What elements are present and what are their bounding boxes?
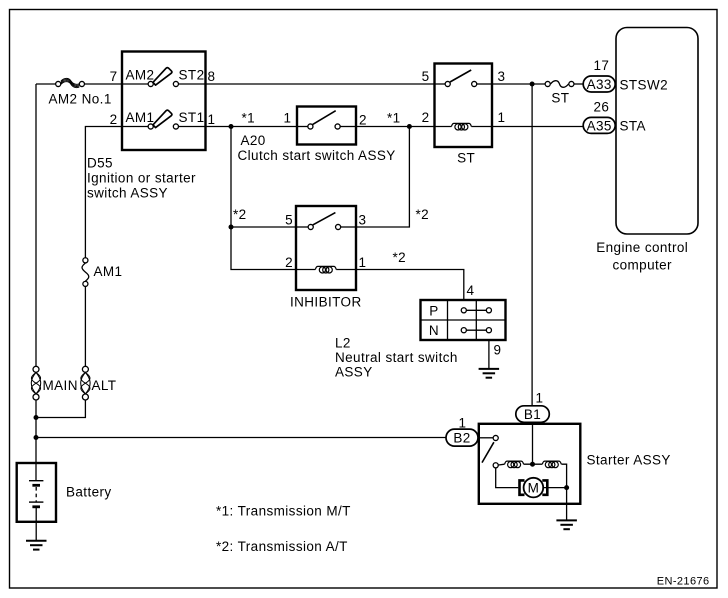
wire: motor to ground junction <box>543 487 566 489</box>
ground (battery) <box>26 541 47 550</box>
svg-text:17: 17 <box>594 58 610 73</box>
svg-text:1: 1 <box>359 255 367 270</box>
node: junction on ST1 line (M/T branch) <box>229 124 234 129</box>
svg-text:Ignition or starter: Ignition or starter <box>87 171 196 186</box>
label Engine control computer <box>596 240 688 273</box>
svg-text:*1: *1 <box>387 111 401 126</box>
starter pull-in coil <box>542 461 561 468</box>
svg-text:A20: A20 <box>241 133 266 148</box>
svg-text:AM2: AM2 <box>126 68 155 83</box>
svg-text:2: 2 <box>359 113 367 128</box>
starter switch lever <box>482 442 494 462</box>
connector A35 <box>583 117 615 133</box>
neutral start switch L2 box <box>421 300 506 340</box>
node: MAIN/ALT junction <box>34 415 39 420</box>
wire: stubs inside D55 AM2 row <box>122 83 148 85</box>
svg-text:*2: Transmission A/T: *2: Transmission A/T <box>216 539 348 554</box>
label L2 Neutral start switch ASSY <box>335 336 458 380</box>
wire: pull-in coil to motor right junction <box>561 464 566 487</box>
svg-text:AM2 No.1: AM2 No.1 <box>49 92 112 107</box>
svg-text:8: 8 <box>208 69 216 84</box>
svg-text:Engine control: Engine control <box>596 240 688 255</box>
label A20 Clutch start switch ASSY <box>238 133 396 163</box>
wire: M/T branch down to inhibitor pin 5 <box>231 127 296 270</box>
svg-text:A35: A35 <box>587 118 612 133</box>
fuse ALT (fusible link, triple-wave vertical) <box>81 366 90 400</box>
wire: A/T branch down to inhibitor pin 3 <box>356 127 409 228</box>
svg-text:INHIBITOR: INHIBITOR <box>290 295 362 310</box>
svg-text:A33: A33 <box>587 77 612 92</box>
wire: coil leads <box>499 463 505 466</box>
svg-text:computer: computer <box>612 258 672 273</box>
svg-text:*2: *2 <box>416 207 430 222</box>
inhibitor contact left <box>308 224 313 229</box>
svg-text:7: 7 <box>110 69 118 84</box>
node: battery feed junction <box>34 435 39 440</box>
wire: inhibitor pin 1 to neutral start switch pin 4 <box>356 270 464 301</box>
inhibitor switch box <box>296 206 356 290</box>
wire: AM1 fuse to fuse ALT <box>84 287 86 367</box>
svg-text:2: 2 <box>110 112 118 127</box>
svg-text:ST1: ST1 <box>179 110 205 125</box>
L2 row divider <box>421 319 506 321</box>
L2 P row contacts <box>461 308 491 313</box>
svg-text:Neutral start switch: Neutral start switch <box>335 350 458 365</box>
connector B2 <box>446 429 478 446</box>
L2 column dividers <box>447 300 449 340</box>
wire: ST2 pin 8 to relay ST pin 5 <box>206 83 435 85</box>
starter solenoid contact <box>493 435 498 440</box>
svg-text:Clutch start switch ASSY: Clutch start switch ASSY <box>238 148 396 163</box>
wire: inhibitor pin 5 feed <box>231 226 296 228</box>
inhibitor contact right <box>336 224 341 229</box>
svg-text:4: 4 <box>467 283 475 298</box>
svg-text:3: 3 <box>498 69 506 84</box>
inhibitor switch lever <box>313 213 336 225</box>
node: junction on inhibitor 5 line <box>229 225 234 230</box>
wire: B1 feed vertical <box>531 84 533 406</box>
svg-text:1: 1 <box>498 110 506 125</box>
svg-text:1: 1 <box>459 416 467 431</box>
wire: relay coil leads inside box <box>435 126 452 128</box>
ground (L2) <box>479 369 500 378</box>
svg-text:1: 1 <box>208 112 216 127</box>
engine control computer box <box>616 28 698 235</box>
D55 AM1-ST1 lever <box>153 110 172 127</box>
wire: junction down to ground <box>566 488 568 521</box>
svg-text:N: N <box>429 323 439 338</box>
svg-text:*2: *2 <box>393 250 407 265</box>
svg-text:M: M <box>528 481 540 496</box>
wire: inhibitor coil leads <box>296 269 315 271</box>
svg-text:Battery: Battery <box>66 485 112 500</box>
wire: D55 pin 2 to left, down main vertical branch <box>85 127 122 258</box>
wire: L2 pin 9 to ground <box>488 340 490 369</box>
connector B1 <box>516 406 550 423</box>
relay ST coil <box>451 123 471 130</box>
D55 AM2-ST2 lever <box>153 68 172 85</box>
D55 contact ST1 <box>173 124 178 129</box>
wire: main vertical to battery <box>35 400 37 481</box>
A20 contact left <box>308 124 313 129</box>
svg-text:1: 1 <box>284 111 292 126</box>
wire: ALT branch joining main vertical <box>36 400 85 418</box>
wire: B1 into starter to coil junction <box>532 423 534 465</box>
svg-text:EN-21676: EN-21676 <box>657 576 710 588</box>
wire: stubs inside inhibitor switch row <box>296 226 308 228</box>
svg-text:2: 2 <box>285 255 293 270</box>
svg-text:L2: L2 <box>335 336 351 351</box>
wire: stubs inside D55 AM1 row <box>122 126 148 128</box>
ignition switch D55 box <box>122 52 206 151</box>
fuse AM2 No.1 (fusible link, triple-wave) <box>56 78 85 87</box>
relay ST contact right <box>472 81 477 86</box>
svg-text:B1: B1 <box>524 407 541 422</box>
ground (starter) <box>556 520 577 529</box>
svg-text:ST: ST <box>551 91 569 106</box>
fuse AM1 <box>82 258 89 287</box>
svg-text:5: 5 <box>422 69 430 84</box>
starter hold-in coil <box>505 461 524 468</box>
wire: battery to ground <box>35 522 37 541</box>
starter ASSY box <box>479 424 581 504</box>
wire: main vertical from AM2 line down to fuse MAIN <box>35 84 37 367</box>
wire: relay pin 3 to fuse ST <box>492 83 545 85</box>
svg-text:9: 9 <box>494 343 502 358</box>
svg-text:1: 1 <box>536 391 544 406</box>
relay ST switch lever <box>450 70 471 82</box>
wire: fuse AM2 No.1 to D55 pin 7 <box>85 83 122 85</box>
wire: ST1 pin 1 to clutch switch pin 1 <box>206 126 298 128</box>
svg-text:AM1: AM1 <box>126 110 155 125</box>
node: junction A20 output (A/T branch) <box>407 124 412 129</box>
battery cell symbol <box>29 481 43 522</box>
starter motor M <box>520 478 548 498</box>
svg-text:3: 3 <box>359 213 367 228</box>
wire: B2 to solenoid contact <box>478 437 493 439</box>
wire: stubs inside relay switch row <box>435 83 446 85</box>
svg-text:Starter ASSY: Starter ASSY <box>587 453 671 468</box>
svg-text:STSW2: STSW2 <box>620 78 669 93</box>
svg-text:ST2: ST2 <box>179 68 205 83</box>
inhibitor coil <box>315 266 336 273</box>
svg-text:ASSY: ASSY <box>335 365 373 380</box>
starter coil contact <box>493 463 498 468</box>
svg-text:MAIN: MAIN <box>43 378 78 393</box>
svg-text:2: 2 <box>422 110 430 125</box>
wire: A20 pin 2 to relay ST pin 2 <box>356 126 435 128</box>
label D55 Ignition or starter switch ASSY <box>87 156 196 201</box>
relay ST box <box>435 64 493 148</box>
wire: AM2 feed from main vertical to fuse AM2 No.1 <box>36 83 55 85</box>
svg-text:B2: B2 <box>453 431 470 446</box>
node: junction to starter B1 feed <box>530 82 535 87</box>
svg-text:ALT: ALT <box>92 378 117 393</box>
svg-text:5: 5 <box>285 213 293 228</box>
wire: relay pin 1 to connector A35 <box>492 126 583 128</box>
svg-text:*1: *1 <box>242 111 256 126</box>
wire: stubs inside A20 <box>297 126 308 128</box>
wire: fuse ST to connector A33 <box>574 83 583 85</box>
A20 contact right <box>335 124 340 129</box>
svg-text:AM1: AM1 <box>94 264 123 279</box>
svg-text:switch ASSY: switch ASSY <box>87 186 168 201</box>
A20 switch lever <box>313 111 336 125</box>
D55 contact AM1 <box>148 124 153 129</box>
D55 contact ST2 <box>173 81 178 86</box>
svg-text:26: 26 <box>594 99 610 114</box>
node: coil junction under B1 <box>530 462 535 467</box>
fuse MAIN (fusible link, triple-wave vertical) <box>31 366 40 400</box>
svg-text:*1: Transmission M/T: *1: Transmission M/T <box>216 504 351 519</box>
D55 contact AM2 <box>148 81 153 86</box>
svg-text:*2: *2 <box>233 207 247 222</box>
clutch start switch A20 box <box>297 107 356 145</box>
L2 N row contacts <box>461 328 491 333</box>
connector A33 <box>583 76 615 92</box>
svg-text:D55: D55 <box>87 156 113 171</box>
svg-text:STA: STA <box>620 119 646 134</box>
wire: contact down to motor left lead <box>496 468 519 488</box>
wire: battery junction to starter B2 <box>36 437 446 439</box>
relay ST contact left <box>445 81 450 86</box>
node: motor/ground junction <box>564 485 569 490</box>
svg-text:P: P <box>429 303 438 318</box>
svg-text:ST: ST <box>457 151 475 166</box>
fuse ST <box>545 81 574 88</box>
battery box <box>17 463 56 522</box>
